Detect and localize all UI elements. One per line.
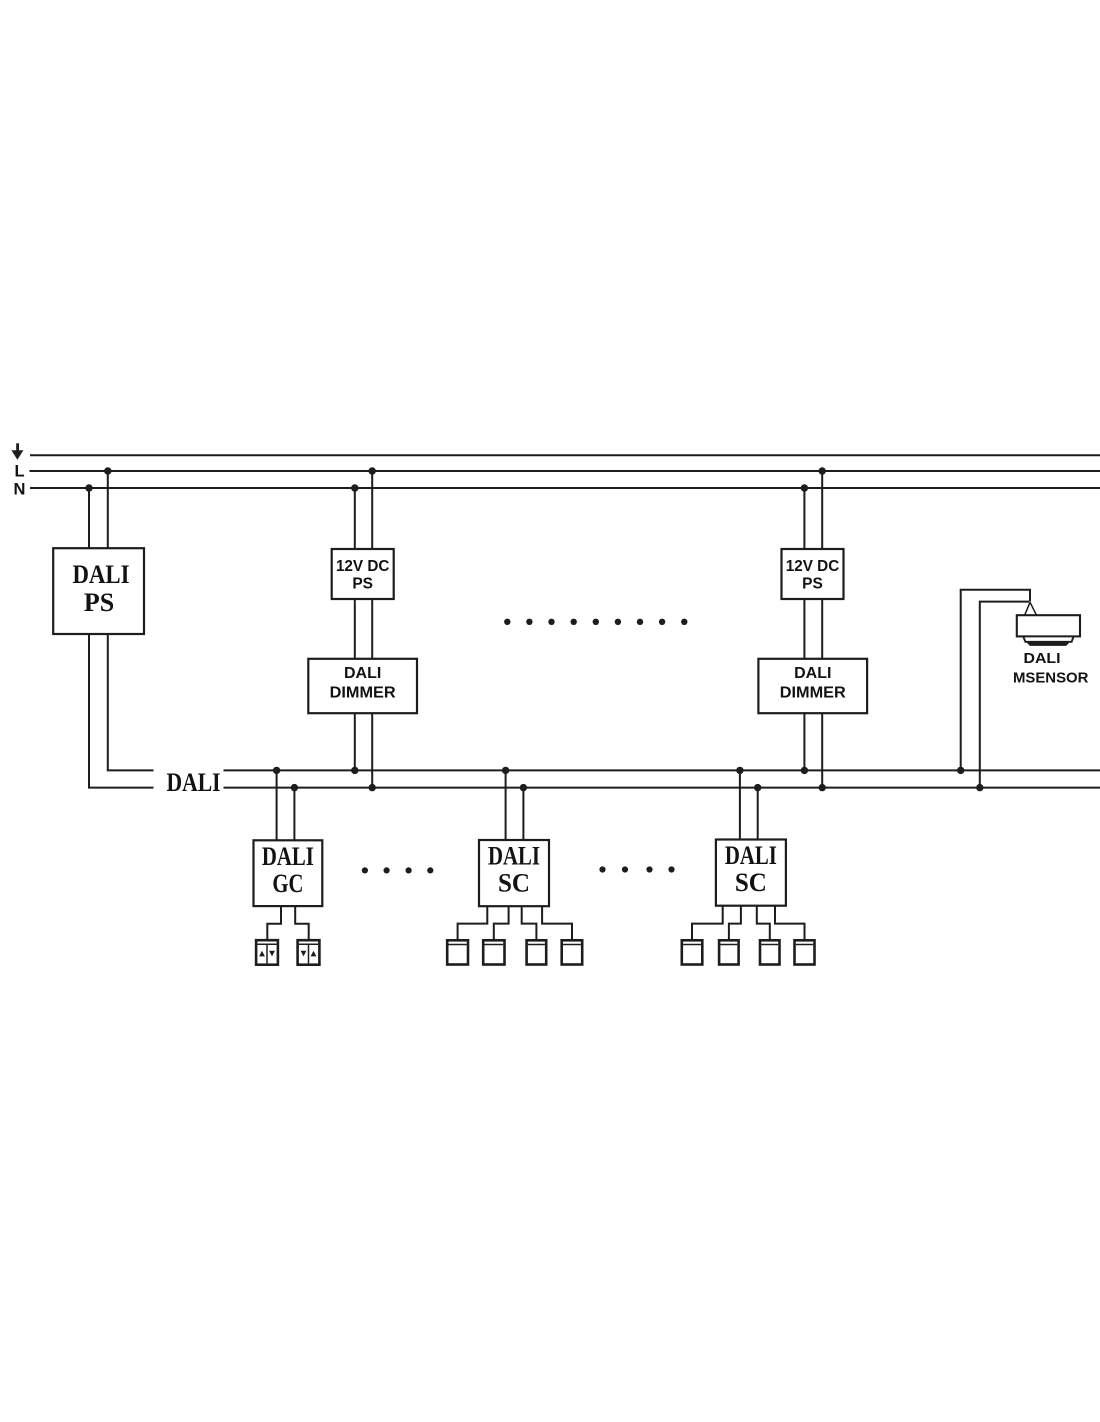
- wire L to DALI PS: [107, 471, 109, 548]
- svg-text:DALI: DALI: [262, 842, 314, 871]
- MSENSOR body: [1017, 615, 1080, 636]
- svg-text:MSENSOR: MSENSOR: [1013, 670, 1089, 687]
- wire DALI PS left pin to DALI bus -: [88, 634, 90, 788]
- wire N to DALI PS: [88, 488, 90, 548]
- MSENSOR collar: [1023, 636, 1073, 641]
- svg-text:L: L: [15, 463, 25, 481]
- wire SC 1 to lamp 3: [522, 906, 537, 940]
- junction SC 1 / DALI bus -: [520, 784, 527, 791]
- wire L / 12V PS 1 / dimmer 1 right: [371, 471, 373, 788]
- lamp 2.2: [719, 940, 739, 964]
- junction dimmer 2 / DALI bus -: [819, 784, 826, 791]
- junction MSENSOR / DALI bus -: [976, 784, 983, 791]
- svg-text:SC: SC: [735, 868, 767, 897]
- junction GC / DALI bus -: [291, 784, 298, 791]
- lamp 1.1: [447, 940, 468, 964]
- junction L / 12V PS 1: [369, 467, 376, 474]
- svg-text:N: N: [14, 481, 26, 499]
- junction dimmer 1 / DALI bus -: [369, 784, 376, 791]
- junction N / 12V PS 2: [801, 484, 808, 491]
- wire DALI bus + line: [107, 769, 1100, 771]
- wire SC 2 to lamp 4: [775, 906, 805, 941]
- wire DALI bus + to MSENSOR: [961, 590, 1030, 771]
- svg-text:DALI: DALI: [73, 560, 130, 589]
- svg-text:12V DC: 12V DC: [336, 558, 390, 575]
- junction SC 2 / DALI bus -: [754, 784, 761, 791]
- DALI SC box 1: [479, 840, 549, 906]
- svg-text:DALI: DALI: [167, 768, 221, 797]
- DALI DIMMER box 1: [308, 659, 417, 713]
- junction SC 2 / DALI bus +: [736, 767, 743, 774]
- wire DALI bus - to DALI GC: [293, 788, 295, 841]
- DALI DIMMER box 2: [758, 659, 867, 713]
- svg-text:DALI: DALI: [794, 665, 831, 682]
- 12V DC PS box 2: [782, 549, 844, 599]
- wire DALI bus + to DALI GC: [276, 770, 278, 840]
- DALI PS box: [53, 548, 144, 634]
- junction SC 1 / DALI bus +: [502, 767, 509, 774]
- ellipsis (more group controllers): [362, 867, 434, 873]
- switch S1 (up/down): [256, 940, 278, 965]
- DALI SC box 2: [716, 840, 786, 906]
- lamp 1.2: [483, 940, 504, 964]
- svg-text:PS: PS: [802, 575, 823, 592]
- supply earth arrow: [11, 443, 23, 460]
- svg-text:DIMMER: DIMMER: [780, 685, 846, 702]
- wire DALI bus - line: [88, 787, 1100, 789]
- svg-text:DALI: DALI: [725, 841, 777, 870]
- wire SC 1 to lamp 1: [458, 906, 488, 940]
- lamp 2.3: [760, 940, 780, 964]
- svg-text:SC: SC: [498, 869, 530, 898]
- wire GC to switch S1: [267, 906, 281, 940]
- wire N line: [30, 487, 1100, 489]
- DALI GC box: [254, 840, 323, 906]
- MSENSOR hanger triangle: [1025, 602, 1037, 615]
- junction GC / DALI bus +: [273, 767, 280, 774]
- wire SC 1 to lamp 2: [494, 906, 509, 940]
- wire SC 2 to lamp 2: [729, 906, 741, 941]
- junction N / 12V PS 1: [351, 484, 358, 491]
- wire N / 12V PS 1 / dimmer 1 left: [354, 488, 356, 770]
- svg-text:DALI: DALI: [488, 842, 540, 871]
- switch S2 (down/up): [298, 940, 320, 965]
- wire L / 12V PS 2 / dimmer 2 right: [821, 471, 823, 788]
- junction dimmer 1 / DALI bus +: [351, 767, 358, 774]
- wire GC to switch S2: [295, 906, 309, 940]
- MSENSOR lens (black): [1026, 642, 1070, 646]
- svg-text:DALI: DALI: [344, 665, 381, 682]
- label DALI MSENSOR: [1013, 650, 1089, 687]
- lamp 2.4: [795, 940, 815, 964]
- junction N / DALI PS: [85, 484, 92, 491]
- wire DALI bus - to MSENSOR: [980, 602, 1029, 788]
- lamp 2.1: [682, 940, 703, 964]
- wire DALI bus + to DALI SC 2: [739, 770, 741, 839]
- wire SC 2 to lamp 3: [757, 906, 770, 941]
- svg-text:PS: PS: [84, 588, 114, 617]
- wire DALI bus - to DALI SC 1: [522, 788, 524, 840]
- wire SC 1 to lamp 4: [542, 906, 572, 940]
- junction MSENSOR / DALI bus +: [957, 767, 964, 774]
- wire earth line: [30, 454, 1100, 456]
- ellipsis (more dimmer groups): [504, 619, 687, 625]
- svg-text:PS: PS: [352, 575, 373, 592]
- wire DALI PS right pin to DALI bus +: [107, 634, 109, 770]
- wire DALI bus + to DALI SC 1: [505, 770, 507, 840]
- svg-text:GC: GC: [272, 869, 303, 898]
- svg-text:12V DC: 12V DC: [786, 558, 840, 575]
- svg-text:DIMMER: DIMMER: [330, 685, 396, 702]
- junction L / 12V PS 2: [819, 467, 826, 474]
- junction L / DALI PS: [104, 467, 111, 474]
- wire L line: [30, 470, 1100, 472]
- wire N / 12V PS 2 / dimmer 2 left: [803, 488, 805, 770]
- lamp 1.4: [562, 940, 583, 964]
- 12V DC PS box 1: [332, 549, 394, 599]
- junction dimmer 2 / DALI bus +: [801, 767, 808, 774]
- ellipsis (more scene controllers): [599, 866, 674, 872]
- label DALI (bus): [154, 763, 224, 797]
- lamp 1.3: [527, 940, 547, 964]
- wire DALI bus - to DALI SC 2: [757, 788, 759, 840]
- wire SC 2 to lamp 1: [692, 906, 723, 941]
- svg-text:DALI: DALI: [1024, 650, 1061, 667]
